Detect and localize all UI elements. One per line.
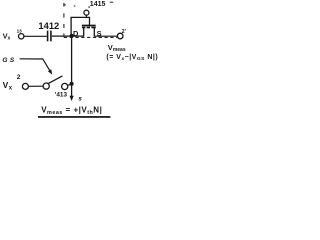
transistor Q1 source lead: [93, 28, 95, 37]
transistor Q1 drain lead: [83, 28, 85, 36]
svg-text:1415: 1415: [90, 1, 106, 8]
svg-text:D: D: [73, 29, 79, 38]
svg-text:(= Vx−|VGS N|): (= Vx−|VGS N|): [106, 54, 158, 62]
dashed enclosure: top edge fragments: [64, 2, 113, 7]
terminal (top input, open circle): [19, 34, 24, 39]
switch S1 left contact: [43, 83, 49, 89]
terminal (bottom input, open circle): [22, 83, 28, 89]
dashed enclosure around DUT: left edge: [63, 3, 65, 37]
switch S1 right contact: [62, 83, 68, 89]
transistor Q1 channel segments: [82, 27, 85, 29]
junction dot at switch tap: [70, 82, 74, 86]
svg-text:2ʼ: 2ʼ: [122, 29, 127, 35]
svg-text:S: S: [10, 57, 15, 64]
wire gate loop (node A up and over to gate): [71, 17, 89, 36]
dashed enclosure: bottom edge: [64, 36, 117, 38]
control arrow to switch arm: [20, 59, 50, 71]
svg-text:13: 13: [17, 28, 23, 33]
terminal gate probe (open circle on loop): [84, 10, 89, 15]
svg-text:ʼ413: ʼ413: [55, 91, 68, 98]
transistor Q1 gate bar: [82, 25, 96, 27]
wire switch to junction: [68, 84, 72, 85]
svg-text:G: G: [2, 57, 7, 64]
switch S1 arm: [48, 76, 62, 84]
caption rule (underline): [38, 116, 110, 118]
node A junction dot: [70, 34, 74, 38]
current arrow (down) at bottom of wire: [70, 96, 74, 101]
wire input to capacitor: [24, 35, 47, 37]
pin mark above gate terminal: [88, 6, 90, 8]
wire bottom input to switch: [29, 85, 44, 87]
wire capacitor to node A: [52, 35, 84, 37]
svg-text:s: s: [78, 96, 82, 103]
svg-text:2: 2: [17, 74, 21, 81]
wire node A down to switch junction and arrow: [71, 36, 73, 98]
svg-text:1412: 1412: [38, 20, 59, 31]
wire source to output terminal: [94, 35, 117, 37]
terminal output Vmeas (open circle): [117, 33, 123, 39]
